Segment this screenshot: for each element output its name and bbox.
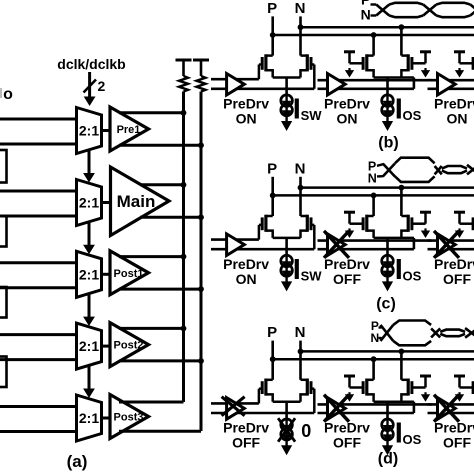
svg-text:ON: ON: [447, 111, 468, 127]
svg-text:PreDrv: PreDrv: [324, 96, 370, 112]
svg-text:Post2: Post2: [114, 340, 144, 352]
svg-text:(b): (b): [378, 135, 398, 152]
svg-text:N: N: [368, 171, 377, 185]
svg-text:o: o: [3, 86, 13, 103]
svg-text:(a): (a): [67, 452, 88, 471]
svg-text:ON: ON: [236, 111, 257, 127]
svg-text:2:1: 2:1: [79, 338, 99, 354]
svg-text:Post1: Post1: [114, 268, 144, 280]
svg-text:PreDrv: PreDrv: [223, 256, 269, 272]
svg-text:OFF: OFF: [443, 271, 471, 287]
svg-text:2:1: 2:1: [79, 195, 99, 211]
svg-text:0: 0: [301, 421, 311, 441]
svg-text:Post3: Post3: [114, 412, 144, 424]
svg-text:SW: SW: [301, 108, 323, 123]
svg-text:OFF: OFF: [333, 271, 361, 287]
svg-text:OFF: OFF: [232, 435, 260, 451]
svg-text:2:1: 2:1: [79, 410, 99, 426]
svg-text:ON: ON: [236, 271, 257, 287]
svg-text:2: 2: [98, 78, 106, 94]
svg-text:(d): (d): [378, 451, 398, 468]
svg-text:PreDrv: PreDrv: [324, 420, 370, 436]
svg-text:dclk/dclkb: dclk/dclkb: [57, 56, 125, 72]
svg-text:PreDrv: PreDrv: [434, 420, 474, 436]
svg-text:Main: Main: [117, 192, 156, 211]
svg-text:N: N: [361, 7, 371, 23]
svg-text:OFF: OFF: [443, 435, 471, 451]
svg-text:P: P: [267, 324, 277, 341]
svg-text:PreDrv: PreDrv: [434, 96, 474, 112]
svg-text:(c): (c): [376, 296, 396, 313]
svg-text:P: P: [267, 160, 277, 177]
svg-text:PreDrv: PreDrv: [223, 96, 269, 112]
svg-text:SW: SW: [301, 268, 323, 283]
svg-text:2:1: 2:1: [79, 266, 99, 282]
svg-text:N: N: [370, 331, 379, 345]
svg-text:PreDrv: PreDrv: [223, 420, 269, 436]
svg-text:ON: ON: [337, 111, 358, 127]
svg-text:PreDrv: PreDrv: [434, 256, 474, 272]
svg-text:OFF: OFF: [333, 435, 361, 451]
svg-text:2:1: 2:1: [79, 123, 99, 139]
svg-text:PreDrv: PreDrv: [324, 256, 370, 272]
svg-text:P: P: [267, 0, 277, 17]
svg-text:N: N: [295, 160, 306, 177]
svg-text:OS: OS: [403, 268, 422, 283]
svg-text:OS: OS: [403, 108, 422, 123]
svg-text:N: N: [295, 324, 306, 341]
svg-text:Pre1: Pre1: [117, 124, 141, 136]
svg-text:OS: OS: [403, 432, 422, 447]
svg-text:N: N: [295, 0, 306, 17]
